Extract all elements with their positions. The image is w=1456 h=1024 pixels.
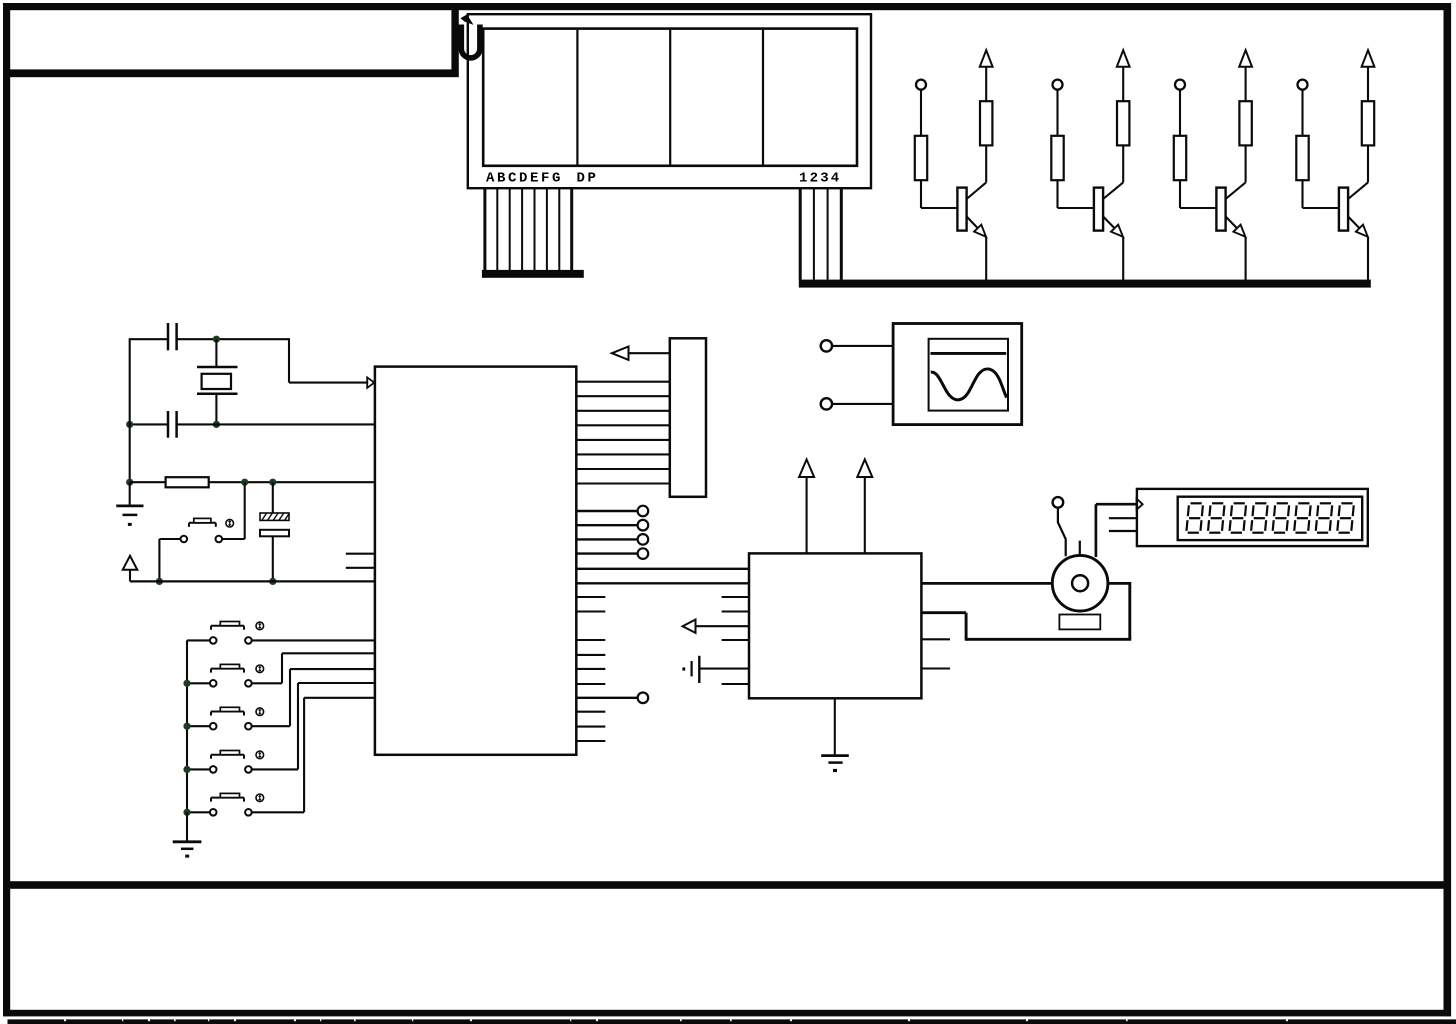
U1 pin stub	[346, 567, 375, 569]
capacitor C3 positive plate (hatched)	[260, 513, 289, 520]
svg-text:DP: DP	[577, 171, 599, 187]
wire collector	[1245, 145, 1247, 182]
SW4 actuate icon	[256, 708, 264, 716]
terminal X2 input A	[821, 340, 832, 351]
wire U1 to J1	[576, 468, 670, 470]
wire	[215, 394, 217, 425]
wire	[244, 482, 246, 539]
emitter arrow Q4	[1356, 225, 1368, 237]
terminal	[638, 693, 649, 704]
driver U2	[749, 553, 921, 698]
capacitor C3 negative plate	[260, 530, 289, 537]
wire emitter to bus	[1122, 237, 1124, 280]
wire base	[1179, 180, 1181, 208]
terminal (digit 1 drive)	[916, 80, 926, 90]
wire emitter to bus	[1245, 237, 1247, 280]
push-button SW5	[211, 754, 244, 756]
common bus bar	[799, 280, 1371, 288]
wire collector	[985, 145, 987, 182]
power arrow VCC (Q3 collector load)	[1239, 50, 1252, 67]
U1 pin stub	[576, 596, 605, 598]
wire switch bus	[186, 640, 188, 812]
emitter arrow Q3	[1233, 225, 1245, 237]
U2 pin stub	[921, 667, 950, 669]
pin arrow XTAL1	[367, 377, 374, 387]
wire U1 to J1	[576, 410, 670, 412]
wire	[215, 339, 217, 367]
wire U1 output	[576, 697, 637, 699]
wire base	[1301, 180, 1303, 208]
node junction	[126, 479, 133, 486]
wire collector	[1367, 145, 1369, 182]
wire	[130, 423, 168, 425]
capacitor C1	[167, 323, 170, 350]
wire	[1179, 89, 1181, 135]
wire U1 to U2 data	[576, 568, 749, 570]
U2 pin stub	[722, 639, 749, 641]
wire U1 output	[576, 524, 637, 526]
power arrow VCC	[857, 459, 872, 477]
node junction	[183, 809, 190, 816]
push-button SW6	[211, 797, 244, 799]
wire	[187, 725, 210, 727]
push-button SW4	[211, 711, 244, 713]
wire U1 to J1	[576, 453, 670, 455]
node junction	[183, 723, 190, 730]
wire emitter	[1103, 217, 1114, 229]
segment bus bar	[482, 270, 584, 278]
U1 pin stub	[576, 654, 605, 656]
pin arrow DS2 input	[1137, 499, 1143, 510]
U1 pin stub	[346, 553, 375, 555]
U2 pin stub	[921, 638, 950, 640]
emitter arrow Q2	[1111, 225, 1123, 237]
ground	[129, 482, 131, 506]
resistor R1	[166, 477, 209, 487]
wire U1 to J1	[576, 395, 670, 397]
resistor R5 (collector)	[980, 101, 992, 145]
terminal	[638, 506, 649, 517]
resistor R7 (collector)	[1239, 101, 1251, 145]
digit common wires 1-4	[799, 188, 802, 280]
node junction	[126, 421, 133, 428]
wire base	[920, 180, 922, 208]
wire	[177, 423, 375, 425]
node junction	[269, 578, 276, 585]
wire emitter	[1348, 217, 1359, 229]
U2 pin stub	[722, 683, 749, 685]
resistor R1 (base)	[915, 136, 927, 180]
wire	[222, 538, 245, 540]
wire	[252, 768, 298, 770]
designator U (clipped)	[461, 25, 480, 58]
display module DS2 body	[1137, 489, 1368, 546]
wire	[629, 352, 670, 354]
node junction	[213, 421, 220, 428]
wire emitter	[1226, 217, 1237, 229]
ground	[186, 812, 188, 842]
resistor R4 (base)	[1296, 136, 1308, 180]
wire	[696, 625, 750, 627]
wire buzzer loop	[1108, 582, 1130, 585]
wire	[130, 338, 168, 340]
wire	[272, 536, 274, 581]
wire U1 to J1	[576, 439, 670, 441]
U2 pin stub	[722, 596, 749, 598]
wire U1 output	[576, 510, 637, 512]
wire base	[1056, 180, 1058, 208]
node junction	[213, 336, 220, 343]
resistor R2 (base)	[1051, 136, 1063, 180]
wire	[921, 582, 1052, 585]
power arrow VCC (Q2 collector load)	[1117, 50, 1130, 67]
svg-text:1234: 1234	[799, 171, 841, 187]
wire	[252, 682, 282, 684]
node junction	[241, 479, 248, 486]
wire	[1056, 89, 1058, 135]
power arrow VCC	[123, 556, 138, 570]
X2 sine waveform	[931, 369, 1007, 400]
terminal X2 input B	[821, 398, 832, 409]
microcontroller U1	[375, 367, 576, 755]
transistor Q1	[957, 188, 966, 231]
wire U1 to J1	[576, 381, 670, 383]
net arrow (to bus)	[612, 347, 629, 360]
wire	[832, 345, 893, 347]
terminal (digit 4 drive)	[1298, 80, 1308, 90]
net arrow	[683, 620, 696, 633]
wire	[209, 481, 375, 483]
wire U1 to U2 clock	[576, 582, 749, 584]
resistor R6 (collector)	[1117, 101, 1129, 145]
wire emitter to bus	[985, 237, 987, 280]
wire	[129, 338, 131, 482]
U1 pin stub	[576, 740, 605, 742]
power arrow VCC (Q1 collector load)	[980, 50, 993, 67]
wire buzzer pin	[1058, 508, 1066, 557]
crystal X1	[197, 366, 238, 369]
power arrow VCC (Q4 collector load)	[1362, 50, 1375, 67]
buzzer LS1	[1052, 555, 1108, 611]
terminal buzzer drive	[1053, 497, 1064, 508]
push-button SW3	[211, 668, 244, 670]
node junction	[269, 479, 276, 486]
U1 pin stub	[576, 726, 605, 728]
wire	[920, 89, 922, 135]
U1 pin stub	[576, 711, 605, 713]
wire U1 to J1	[576, 424, 670, 426]
X2 trigger level line	[931, 352, 1007, 355]
U1 pin stub	[576, 639, 605, 641]
DS2 pin stub	[1109, 530, 1137, 532]
wire	[252, 639, 375, 641]
terminal	[638, 548, 649, 559]
wire	[177, 338, 289, 340]
wire VCC rail	[130, 580, 375, 582]
U1 pin stub	[576, 668, 605, 670]
svg-text:ABCDEFG: ABCDEFG	[486, 171, 563, 187]
terminal (digit 2 drive)	[1053, 80, 1063, 90]
terminal	[638, 534, 649, 545]
wire	[252, 725, 290, 727]
SW1 actuate icon	[226, 519, 234, 527]
wire	[187, 639, 210, 641]
signal source X2 body	[893, 324, 1022, 425]
resistor R8 (collector)	[1362, 101, 1374, 145]
SW5 actuate icon	[256, 751, 264, 759]
wire	[272, 482, 274, 513]
segment wires A-G,DP	[483, 188, 486, 270]
wire U1 output	[576, 552, 637, 554]
SW2 actuate icon	[256, 622, 264, 630]
wire	[187, 811, 210, 813]
node junction	[156, 578, 163, 585]
terminal	[638, 520, 649, 531]
wire	[252, 811, 304, 813]
terminal (digit 3 drive)	[1175, 80, 1185, 90]
U1 pin stub	[576, 610, 605, 612]
wire	[187, 768, 210, 770]
LS1 label box	[1059, 615, 1100, 630]
wire to DS2	[1095, 504, 1098, 557]
wire	[187, 682, 210, 684]
connector J1	[670, 338, 706, 497]
wire	[159, 538, 180, 540]
SW6 actuate icon	[256, 794, 264, 802]
node junction	[183, 766, 190, 773]
ground flag	[699, 668, 749, 670]
push-button SW2	[211, 625, 244, 627]
DS2 digits 88888888	[1186, 503, 1353, 532]
emitter arrow Q1	[974, 225, 986, 237]
SW3 actuate icon	[256, 665, 264, 673]
wire emitter to bus	[1367, 237, 1369, 280]
push-button SW1	[189, 522, 216, 524]
ground	[834, 698, 836, 755]
buzzer pin stub	[1079, 541, 1081, 556]
wire emitter	[967, 217, 978, 229]
U1 pin stub	[576, 683, 605, 685]
wire U1 to J1	[576, 482, 670, 484]
wire U1 output	[576, 538, 637, 540]
resistor R3 (base)	[1174, 136, 1186, 180]
wire	[130, 481, 166, 483]
capacitor C2	[167, 411, 170, 438]
wire	[832, 403, 893, 405]
wire collector	[1122, 145, 1124, 182]
power arrow VCC	[799, 459, 814, 477]
DS2 pin stub	[1109, 517, 1137, 519]
wire entry arrow at DS1 corner	[460, 14, 473, 25]
node junction	[183, 680, 190, 687]
transistor Q4	[1339, 188, 1348, 231]
U2 pin stub	[722, 610, 749, 612]
transistor Q2	[1094, 188, 1103, 231]
wire	[1301, 89, 1303, 135]
7-segment display DS1 body	[468, 14, 871, 188]
transistor Q3	[1216, 188, 1225, 231]
